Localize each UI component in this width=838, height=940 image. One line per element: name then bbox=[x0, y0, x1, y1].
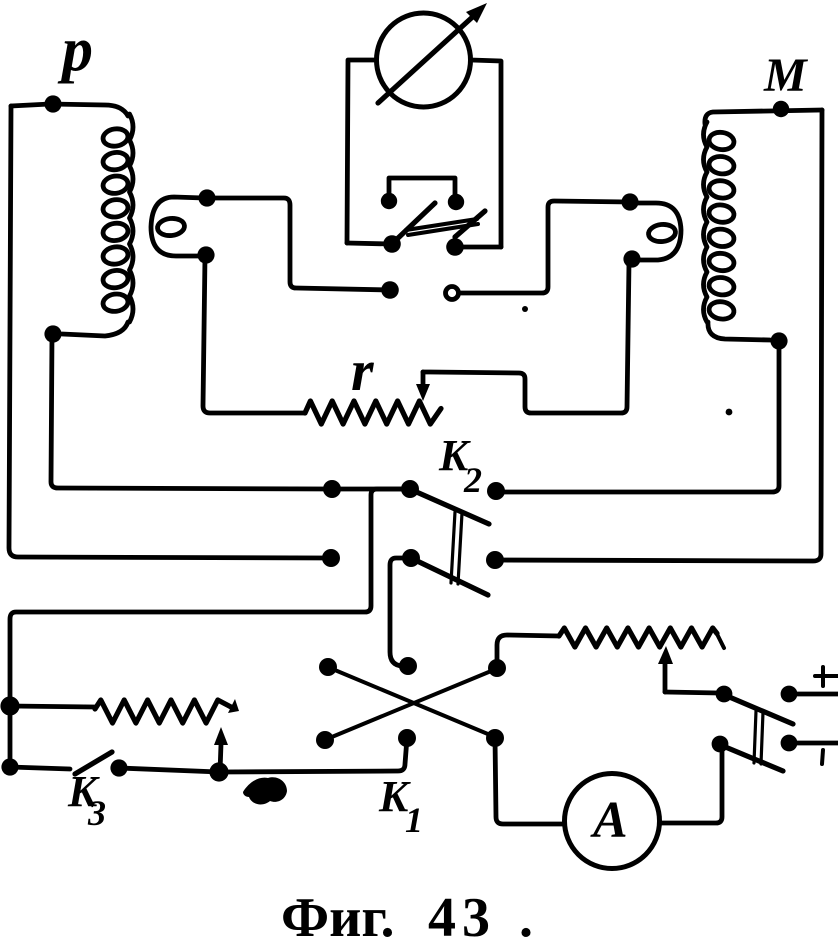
wire: from P bottom dot down to K2 row1 left bbox=[51, 334, 332, 489]
node: P top dot bbox=[44, 95, 61, 112]
speck right middle bbox=[726, 409, 733, 416]
svg-text:Фиг.: Фиг. bbox=[281, 887, 394, 940]
wire: P coil bottom tail bbox=[62, 322, 128, 336]
wire: left outer vertical from P top down to K2 row2 bbox=[9, 106, 331, 558]
node: interrupter left pivot dot bbox=[383, 235, 401, 253]
secondary coil right (pickup), outer C bbox=[632, 203, 681, 260]
node: K3 right contact dot bbox=[110, 759, 127, 776]
wire: left pickup top dot to lower contact row (step) bbox=[207, 198, 390, 290]
left rheostat wiper arrow up bbox=[220, 744, 221, 772]
node: P bottom dot bbox=[44, 325, 61, 342]
K2 blade upper bbox=[412, 490, 489, 524]
node: K2 row2 pivot dot bbox=[402, 549, 420, 567]
wire: M coil bottom tail bbox=[708, 322, 770, 340]
node: lower contact left dot bbox=[381, 281, 399, 299]
K1 cross wire TL-BR bbox=[330, 668, 495, 737]
wire: lower pivot down to ammeter right bbox=[660, 748, 722, 823]
right rheostat wiper arrow up bbox=[663, 660, 668, 692]
ammeter A circle bbox=[565, 774, 660, 869]
interrupter double bar lower bbox=[408, 224, 478, 235]
wire: M coil top lead bbox=[705, 110, 822, 124]
coil P loops bbox=[102, 127, 129, 148]
node: battery switch upper pivot dot bbox=[716, 686, 733, 703]
wire: wiper to battery switch upper pivot bbox=[665, 692, 719, 693]
node: K1 bottom-right dot bbox=[486, 729, 504, 747]
right rheostat tail bbox=[717, 634, 724, 648]
wire: upper terminal lead bbox=[797, 692, 838, 697]
galvanometer needle arrowhead bbox=[466, 3, 487, 23]
open contact circle bbox=[446, 287, 459, 300]
secondary coil left inner loop bbox=[157, 217, 186, 237]
node: K1 top-right dot bbox=[488, 659, 506, 677]
node: K1 top-left dot bbox=[319, 658, 337, 676]
rheostat r wiper arrow down bbox=[421, 372, 426, 390]
node: left pickup bottom dot bbox=[197, 246, 214, 263]
interrupter blade right diagonal bbox=[455, 211, 485, 237]
wire: K2 pivot2 down to K1 top-middle bbox=[390, 558, 411, 666]
flourish mark (pen comma) bbox=[243, 777, 287, 804]
wire: open contact to right step up to pickup coil right bbox=[459, 201, 630, 293]
svg-text:A: A bbox=[590, 792, 628, 849]
wire: galvanometer right lead vertical bbox=[471, 60, 501, 247]
node: K2 row1 right dot bbox=[487, 482, 505, 500]
secondary coil right inner loop bbox=[648, 223, 677, 243]
wire: shunt junction to left rheostat bbox=[10, 706, 95, 707]
node: left pickup top dot bbox=[198, 189, 215, 206]
node: right pickup bottom dot bbox=[623, 250, 640, 267]
minus pole tick bbox=[822, 750, 823, 764]
interrupter blade left diagonal bbox=[396, 203, 435, 240]
svg-text:M: M bbox=[763, 49, 809, 102]
plus sign bbox=[815, 667, 838, 686]
node: left rheostat wiper junction dot bbox=[209, 762, 228, 781]
svg-text:1: 1 bbox=[405, 800, 423, 840]
node: M bottom dot bbox=[770, 332, 787, 349]
wire: wiper of r up and over to right pickup bottom bbox=[423, 262, 629, 413]
wire: K2 pivot1 left-down long run to bottom-left loop bbox=[10, 489, 410, 767]
svg-text:43: 43 bbox=[428, 887, 496, 940]
K2 blade lower bbox=[413, 559, 488, 595]
svg-text:.: . bbox=[519, 887, 533, 940]
node: right pickup top dot bbox=[621, 193, 638, 210]
wire: galvanometer left lead vertical bbox=[347, 60, 376, 243]
svg-text:2: 2 bbox=[463, 460, 482, 500]
left rheostat end arrowhead bbox=[228, 699, 239, 713]
battery switch upper blade bbox=[727, 696, 793, 724]
K2 insulating double bar bbox=[451, 512, 462, 584]
node: K1 bottom-middle dot bbox=[398, 729, 416, 747]
right rheostat zigzag bbox=[559, 628, 717, 647]
wire: lower terminal lead bbox=[797, 741, 838, 746]
wire: K1 bottom-middle down to bottom rail bbox=[219, 738, 407, 772]
coil M loops bbox=[708, 131, 735, 152]
node: interrupter right pivot dot bbox=[446, 238, 464, 256]
node: battery terminal upper dot bbox=[781, 686, 798, 703]
battery switch double bar bbox=[754, 711, 763, 764]
battery switch lower blade bbox=[723, 746, 783, 771]
node: K1 top-middle dot bbox=[399, 657, 417, 675]
wire: K2 row1 left lead bbox=[332, 487, 410, 492]
svg-text:r: r bbox=[351, 338, 374, 403]
node: staple right dot bbox=[448, 194, 464, 210]
wire: left pickup bottom dot down to rheostat r bbox=[203, 256, 305, 413]
wire: contact staple above interrupter bbox=[389, 178, 455, 201]
node: battery switch lower pivot dot bbox=[712, 736, 729, 753]
speck near open contact bbox=[522, 306, 528, 312]
rheostat r zigzag bbox=[305, 401, 441, 424]
node: staple left dot bbox=[381, 193, 397, 209]
node: bottom-left corner dot bbox=[1, 758, 18, 775]
galvanometer G circle bbox=[377, 13, 471, 107]
node: M top dot bbox=[773, 101, 789, 117]
wire: from M bottom dot down to K2 row1 right bbox=[496, 341, 779, 492]
node: K2 row1 left dot bbox=[323, 480, 341, 498]
wire: K3 dot to wiper junction and on to K1 bbox=[119, 768, 219, 772]
wire: P coil top lead bbox=[11, 104, 128, 116]
node: K2 row1 pivot dot bbox=[401, 480, 419, 498]
galvanometer needle bbox=[378, 12, 478, 103]
left rheostat zigzag bbox=[95, 700, 232, 723]
K1 cross wire BL-TR bbox=[327, 669, 496, 739]
wire: bottom-right of galvanometer loop bbox=[456, 245, 501, 250]
wire: K1 top-right up to right rheostat bbox=[497, 635, 559, 666]
node: left shunt junction dot bbox=[0, 696, 19, 715]
svg-text:p: p bbox=[57, 16, 93, 84]
secondary coil left (pickup), outer C bbox=[151, 197, 204, 256]
K3 blade bbox=[75, 752, 112, 774]
wire: bottom-left of galvanometer loop bbox=[347, 243, 391, 244]
node: K2 row2 right dot bbox=[486, 551, 504, 569]
svg-text:3: 3 bbox=[87, 793, 106, 833]
interrupter double bar upper bbox=[406, 219, 477, 230]
node: K2 row2 left dot bbox=[322, 549, 340, 567]
wire: right outer vertical from M top down to K2 row2 right bbox=[495, 110, 822, 561]
coil P spine bbox=[130, 114, 134, 322]
node: K1 bottom-left dot bbox=[316, 731, 334, 749]
wire: bottom-left rail with junction bbox=[10, 767, 70, 769]
coil M spine bbox=[704, 122, 708, 322]
node: battery terminal lower dot bbox=[781, 735, 798, 752]
wire: K1 bottom-right down to ammeter left bbox=[495, 738, 564, 824]
